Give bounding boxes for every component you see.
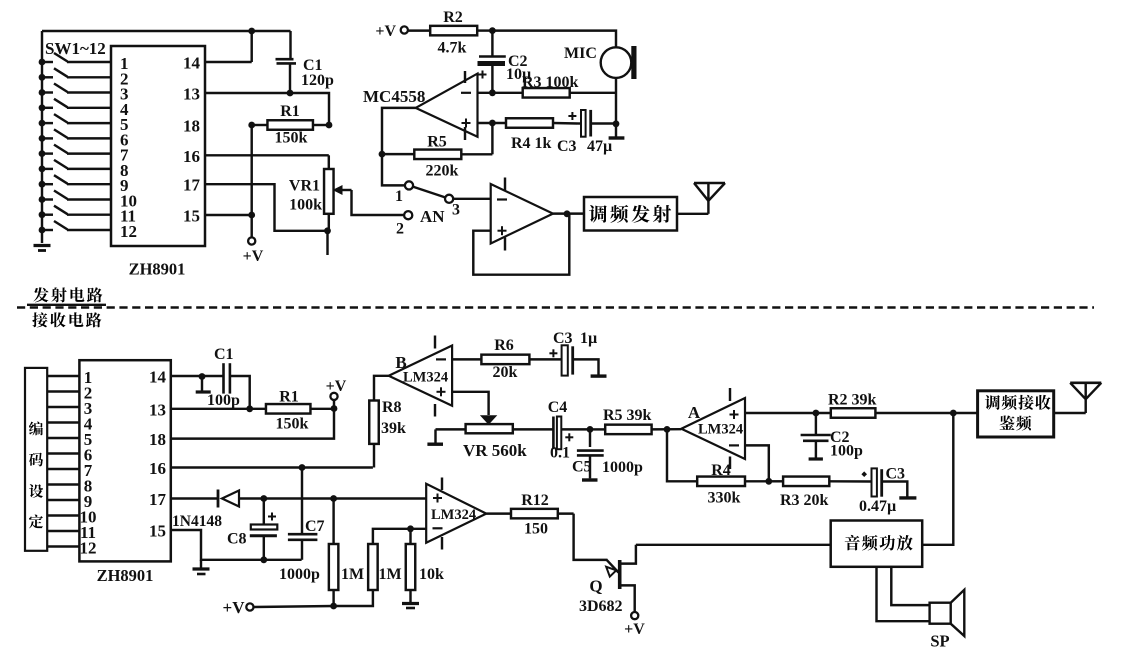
svg-text:R3 100k: R3 100k — [522, 74, 579, 91]
wires 编码设定 to U4 — [47, 376, 79, 547]
wire pin15 ground rail — [171, 530, 302, 560]
wire U2 output to R5 — [379, 108, 416, 158]
label C4 — [548, 399, 568, 416]
potentiometer VR 560k — [436, 424, 554, 433]
svg-text:C8: C8 — [227, 531, 247, 548]
svg-text:14: 14 — [149, 368, 167, 387]
resistor R4 330k — [667, 429, 772, 486]
ground SW bus — [34, 246, 51, 251]
wire collector to amp — [636, 544, 831, 546]
svg-text:16: 16 — [149, 459, 166, 478]
resistor R4 1k — [506, 118, 578, 128]
label 3D682 — [579, 598, 623, 615]
svg-text:12: 12 — [80, 539, 97, 558]
label 10k — [419, 566, 444, 583]
block FM receive box — [978, 391, 1054, 437]
label A — [688, 403, 701, 422]
svg-text:17: 17 — [149, 490, 167, 509]
wire pin14 — [205, 61, 252, 63]
svg-text:1M: 1M — [341, 566, 364, 583]
label 100k — [289, 197, 322, 214]
svg-text:MIC: MIC — [564, 45, 597, 62]
label 1M a — [341, 566, 364, 583]
wire A plus to R2 — [745, 410, 831, 417]
capacitor C3 1u — [549, 345, 606, 376]
resistor R5 39k RX — [590, 425, 681, 435]
block FM transmit box — [584, 197, 677, 231]
svg-text:100k: 100k — [289, 197, 322, 214]
svg-text:R12: R12 — [521, 492, 549, 509]
capacitor C2 100p RX — [801, 413, 831, 459]
label 2 — [396, 221, 404, 238]
label 100p RX — [830, 443, 863, 460]
label Q — [589, 577, 602, 596]
label 调频发射 — [589, 205, 671, 223]
svg-text:15: 15 — [149, 522, 166, 541]
label LM324 bottom — [431, 507, 476, 523]
wire U2 minus input — [478, 89, 523, 96]
wire R12 to Q base — [574, 514, 608, 560]
label 3 — [452, 202, 460, 219]
svg-text:16: 16 — [183, 147, 200, 166]
label C2 — [508, 53, 528, 70]
svg-text:+V: +V — [375, 23, 396, 40]
separator dashed line — [17, 306, 1094, 309]
label C8 — [227, 531, 247, 548]
label 鉴频 — [1000, 415, 1032, 430]
svg-text:18: 18 — [149, 430, 166, 449]
terminal +V Q — [624, 612, 645, 638]
label C2 RX — [830, 429, 850, 446]
resistor R3 100k — [523, 88, 616, 98]
label 150k — [275, 130, 308, 147]
label 4.7k — [438, 40, 467, 57]
label R2 — [443, 9, 463, 26]
label 接收电路 — [32, 312, 101, 327]
label 1000p C5 — [602, 459, 643, 476]
resistor R1 150k RX — [171, 404, 338, 414]
label 音频功放 — [845, 535, 913, 551]
svg-text:+V: +V — [326, 378, 347, 395]
svg-text:VR1: VR1 — [289, 178, 320, 195]
label AN — [420, 207, 445, 226]
svg-text:12: 12 — [120, 222, 137, 241]
op-amp U2 MC4558 — [416, 71, 478, 140]
svg-text:2: 2 — [396, 221, 404, 238]
svg-text:C3: C3 — [553, 330, 573, 347]
label SP — [930, 632, 949, 651]
resistor R12 150 — [486, 509, 573, 518]
capacitor C2 10u — [478, 31, 506, 93]
label 150 — [524, 521, 548, 538]
IC U4 ZH8901 box — [79, 360, 170, 561]
svg-text:14: 14 — [183, 54, 201, 73]
terminal +V bottom — [223, 598, 334, 617]
svg-text:R8: R8 — [382, 399, 402, 416]
U4 left pin numbers 1-12 — [80, 368, 97, 558]
resistor R2 4.7k — [408, 26, 496, 35]
label C1 RX — [214, 346, 234, 363]
svg-text:C3: C3 — [557, 138, 577, 155]
svg-text:18: 18 — [183, 117, 200, 136]
label R5 39k — [603, 407, 652, 424]
label 100p — [207, 392, 240, 409]
label VR 560k — [463, 441, 527, 460]
op-amp LM324 bottom — [426, 478, 486, 550]
svg-text:LM324: LM324 — [698, 422, 743, 438]
ground MIC node — [609, 124, 625, 138]
label R4 RX — [711, 462, 731, 479]
svg-text:R4 1k: R4 1k — [511, 135, 552, 152]
switch AN — [404, 181, 453, 219]
wire det to audio amp — [922, 413, 953, 545]
wire +V riser — [248, 125, 255, 238]
svg-text:+V: +V — [243, 248, 264, 265]
capacitor C7 1000p — [288, 468, 318, 560]
svg-text:100p: 100p — [830, 443, 863, 460]
wire LM324 minus net — [373, 525, 426, 545]
label R2 39k — [828, 392, 877, 409]
label R12 — [521, 492, 549, 509]
label 调频接收 — [985, 395, 1051, 410]
label 1N4148 — [172, 513, 222, 530]
svg-text:20k: 20k — [493, 364, 518, 381]
svg-text:15: 15 — [183, 207, 200, 226]
wire pin17 to op-amp — [260, 495, 426, 502]
svg-text:R3 20k: R3 20k — [780, 492, 829, 509]
svg-text:150k: 150k — [275, 130, 308, 147]
svg-text:1000p: 1000p — [602, 459, 643, 476]
svg-text:A: A — [688, 403, 701, 422]
svg-text:+V: +V — [223, 598, 246, 617]
svg-text:SP: SP — [930, 632, 949, 651]
wire bus to MIC — [492, 31, 616, 47]
resistor R3 20k — [769, 477, 872, 487]
block 编码设定 box — [25, 368, 47, 551]
svg-text:1: 1 — [395, 188, 403, 205]
svg-text:220k: 220k — [426, 163, 459, 180]
svg-text:3D682: 3D682 — [579, 598, 623, 615]
diode D1 1N4148 — [171, 490, 264, 508]
svg-text:100p: 100p — [207, 392, 240, 409]
resistor Ra 1M — [329, 499, 339, 610]
svg-text:MC4558: MC4558 — [363, 87, 425, 106]
IC U1 ZH8901 box — [111, 46, 205, 246]
svg-text:47µ: 47µ — [587, 138, 612, 155]
label C7 — [305, 518, 325, 535]
label MIC — [564, 45, 597, 62]
wire pin16 — [205, 154, 329, 156]
svg-text:R2: R2 — [443, 9, 463, 26]
wire pin18 RX — [171, 409, 334, 439]
capacitor C8 — [250, 499, 277, 564]
svg-text:1µ: 1µ — [580, 330, 597, 347]
svg-text:AN: AN — [420, 207, 445, 226]
svg-text:0.1: 0.1 — [550, 445, 570, 462]
capacitor C5 1000p — [577, 429, 604, 480]
ground pin15 — [193, 560, 210, 574]
svg-text:C1: C1 — [214, 346, 234, 363]
op-amp B LM324 — [389, 336, 452, 417]
label 0.47u — [859, 498, 896, 515]
label C1 — [303, 57, 323, 74]
ground stub C1 — [196, 376, 211, 392]
wire AN3 to U3 — [453, 198, 490, 200]
capacitor C1 100p RX — [171, 363, 253, 412]
resistor R1 150k — [248, 120, 332, 130]
label R1 — [280, 103, 300, 120]
wire U2 plus input — [478, 120, 507, 127]
label ZH8901 — [129, 260, 186, 279]
label LM324 A — [698, 422, 743, 438]
label R6 — [494, 337, 514, 354]
capacitor C4 0.1 — [553, 417, 593, 450]
wire SW common bus — [41, 31, 43, 243]
capacitor C3 0.47u — [861, 468, 916, 498]
label C5 — [572, 459, 592, 476]
label 150k RX — [276, 416, 309, 433]
wires amp to speaker — [877, 567, 930, 621]
svg-text:R1: R1 — [280, 103, 300, 120]
svg-text:1M: 1M — [379, 566, 402, 583]
svg-text:R5 39k: R5 39k — [603, 407, 652, 424]
label 120p — [301, 72, 334, 89]
svg-text:+V: +V — [624, 621, 645, 638]
label MC4558 — [363, 87, 425, 106]
label SW1~12 — [45, 39, 106, 58]
wire top supply bus — [42, 30, 291, 32]
resistor R6 20k — [452, 355, 561, 365]
wire U3 output — [553, 210, 584, 217]
label 220k — [426, 163, 459, 180]
label 10µ — [506, 66, 531, 83]
antenna TX — [677, 183, 725, 214]
label 330k — [708, 490, 741, 507]
svg-text:R4: R4 — [711, 462, 731, 479]
wire U3 feedback — [473, 214, 569, 275]
block audio amp box — [831, 521, 923, 567]
label 39k — [381, 420, 406, 437]
op-amp U3 buffer — [491, 178, 553, 251]
label LM324 B — [403, 370, 448, 386]
terminal +V U1 — [243, 237, 264, 265]
wire B plus to VR wiper — [452, 392, 497, 425]
U4 right pin numbers — [149, 368, 167, 541]
label R1 RX — [279, 389, 299, 406]
label 发射电路 — [33, 287, 102, 302]
transistor Q 3D682 — [606, 545, 636, 612]
svg-text:13: 13 — [149, 400, 166, 419]
resistor Rb 1M — [334, 544, 378, 606]
U1 left pin numbers 1-12 — [120, 54, 137, 241]
svg-text:R6: R6 — [494, 337, 514, 354]
svg-text:1000p: 1000p — [279, 566, 320, 583]
label R5 — [427, 134, 447, 151]
label 编码设定 — [29, 422, 43, 529]
label R8 — [382, 399, 402, 416]
svg-text:C7: C7 — [305, 518, 325, 535]
svg-text:120p: 120p — [301, 72, 334, 89]
label 0.1 — [550, 445, 570, 462]
wire MIC down — [613, 78, 620, 127]
switch SW1~12 bank — [39, 53, 111, 233]
label C3 47u — [557, 138, 612, 155]
svg-text:LM324: LM324 — [403, 370, 448, 386]
wire A minus — [745, 445, 769, 481]
potentiometer VR1 100k — [324, 155, 334, 231]
U1 right pin numbers — [183, 54, 201, 226]
svg-text:39k: 39k — [381, 420, 406, 437]
svg-text:4.7k: 4.7k — [438, 40, 467, 57]
microphone MIC — [601, 46, 637, 79]
label C3 RX — [886, 466, 906, 483]
label VR1 — [289, 178, 320, 195]
svg-text:ZH8901: ZH8901 — [97, 566, 154, 585]
label 1 — [395, 188, 403, 205]
wire R5 node to AN1 — [382, 154, 405, 185]
antenna RX — [1054, 383, 1102, 413]
label R4 1k — [511, 135, 552, 152]
resistor R5 220k — [382, 123, 492, 159]
label R3 20k — [780, 492, 829, 509]
svg-text:SW1~12: SW1~12 — [45, 39, 106, 58]
capacitor C1 120p — [276, 31, 297, 96]
label 1M b — [379, 566, 402, 583]
svg-text:R1: R1 — [279, 389, 299, 406]
resistor R2 39k RX — [831, 408, 978, 418]
wire pin13 — [205, 93, 329, 125]
svg-text:17: 17 — [183, 176, 201, 195]
wire pin15 — [205, 214, 252, 216]
label C3 1u — [553, 330, 597, 347]
op-amp A LM324 — [681, 388, 745, 469]
svg-text:R5: R5 — [427, 134, 447, 151]
svg-text:LM324: LM324 — [431, 507, 476, 523]
svg-text:0.47µ: 0.47µ — [859, 498, 896, 515]
terminal +V R2 — [375, 23, 408, 40]
node pin14 riser — [248, 28, 255, 62]
label B — [395, 353, 406, 372]
svg-text:C3: C3 — [886, 466, 906, 483]
svg-text:330k: 330k — [708, 490, 741, 507]
terminal +V R1 RX — [326, 378, 347, 409]
label 1000p — [279, 566, 320, 583]
speaker SP — [930, 590, 965, 636]
svg-text:C5: C5 — [572, 459, 592, 476]
label ZH8901 RX — [97, 566, 154, 585]
svg-text:R2 39k: R2 39k — [828, 392, 877, 409]
separator solid segment — [27, 304, 106, 306]
label R3 100k — [522, 74, 579, 91]
svg-text:VR 560k: VR 560k — [463, 441, 527, 460]
svg-text:C4: C4 — [548, 399, 568, 416]
svg-text:13: 13 — [183, 85, 200, 104]
svg-text:10k: 10k — [419, 566, 444, 583]
VR1 wiper arrow — [333, 185, 404, 215]
svg-text:1N4148: 1N4148 — [172, 513, 222, 530]
svg-text:3: 3 — [452, 202, 460, 219]
resistor Rc 10k — [402, 544, 419, 608]
svg-text:150k: 150k — [276, 416, 309, 433]
label 20k — [493, 364, 518, 381]
ground VR left — [427, 429, 443, 444]
wire pin17 to VR1 bottom — [205, 184, 331, 255]
svg-text:Q: Q — [589, 577, 602, 596]
svg-text:150: 150 — [524, 521, 548, 538]
capacitor C3 47u — [568, 110, 616, 137]
wire pin16 RX — [171, 464, 373, 471]
resistor R8 39k — [369, 376, 388, 468]
svg-text:ZH8901: ZH8901 — [129, 260, 186, 279]
